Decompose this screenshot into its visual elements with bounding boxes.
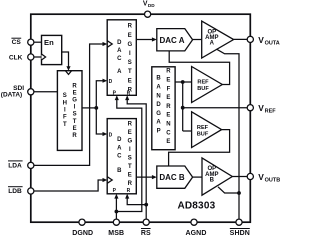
svg-text:R: R	[72, 83, 77, 89]
junction node SHDN branch	[237, 191, 241, 195]
wire DAC A to op amp A	[193, 39, 202, 41]
label REF BUF B	[197, 125, 209, 137]
pin LDB	[28, 188, 34, 194]
svg-text:E: E	[128, 33, 132, 39]
svg-text:C: C	[166, 130, 171, 136]
wire CS to En	[31, 41, 42, 43]
pin AGND	[191, 219, 197, 225]
arrow LDA clock	[103, 42, 108, 46]
ref buf A	[192, 67, 223, 103]
svg-text:DGND: DGND	[72, 230, 93, 237]
wire VREF line	[183, 107, 251, 109]
label DAC B vertical	[117, 137, 122, 174]
label REGISTER vertical (DAC A)	[127, 24, 132, 94]
pin LDA	[28, 162, 34, 168]
op-amp B	[202, 158, 232, 195]
svg-text:C: C	[117, 56, 122, 62]
wire op amp A output to VOUTA	[234, 38, 251, 40]
svg-text:AD8303: AD8303	[177, 201, 215, 212]
bandgap reference box	[152, 67, 175, 150]
svg-text:T: T	[63, 122, 67, 128]
svg-text:E: E	[128, 78, 132, 84]
svg-text:A: A	[117, 48, 122, 54]
svg-text:R: R	[128, 24, 133, 30]
pin RS	[143, 219, 149, 225]
svg-text:MSB: MSB	[108, 230, 124, 237]
wire DAC B to op amp B	[193, 176, 202, 178]
arrow DAC A reg to DAC A	[152, 37, 157, 41]
wire DAC B register to DAC B	[136, 176, 152, 178]
svg-text:N: N	[166, 122, 170, 128]
pin VDD	[145, 11, 151, 17]
label RS	[141, 229, 151, 238]
svg-text:RS: RS	[141, 230, 151, 237]
wire ref buf A output to DAC A ref	[169, 51, 229, 85]
arrow RS to DAC B reg R	[125, 194, 129, 199]
label D P R (DAC A reg)	[109, 79, 131, 96]
wire RS up to registers	[127, 100, 146, 223]
ref buf B	[192, 112, 222, 148]
label REF BUF A	[197, 80, 209, 92]
svg-text:D: D	[156, 102, 161, 108]
label REFERENCE vertical	[166, 69, 171, 145]
svg-text:R: R	[166, 69, 171, 75]
DAC B converter	[157, 166, 193, 188]
label CS	[11, 38, 21, 46]
svg-text:DD: DD	[148, 3, 155, 8]
wire bandgap to ref buf A	[175, 81, 192, 83]
label VDD	[143, 0, 155, 8]
arrow shift to DAC A reg D	[103, 79, 108, 83]
svg-text:D: D	[109, 79, 113, 85]
arrow MSB to DAC A reg P	[115, 95, 119, 100]
label VREF	[258, 103, 276, 115]
wire CLK to En	[31, 56, 42, 58]
pin CLK	[28, 54, 34, 60]
svg-text:OUTA: OUTA	[265, 40, 280, 46]
pin SDI	[28, 89, 34, 95]
pin DGND	[79, 219, 85, 225]
wire SDI to shift register	[31, 91, 58, 93]
svg-text:A: A	[156, 120, 161, 126]
svg-text:REF: REF	[265, 109, 277, 115]
svg-text:SHDN: SHDN	[230, 230, 250, 237]
svg-text:REF: REF	[197, 125, 209, 131]
label OP AMP A	[205, 29, 218, 46]
junction node VREF tap	[181, 106, 185, 110]
wire LDB to DAC B register clock	[31, 180, 104, 191]
svg-text:D: D	[117, 137, 122, 143]
svg-text:BUF: BUF	[197, 131, 209, 137]
svg-text:H: H	[63, 100, 67, 106]
svg-text:D: D	[109, 133, 113, 139]
arrow En clock down	[66, 66, 70, 71]
svg-text:S: S	[128, 156, 132, 162]
svg-text:T: T	[128, 164, 132, 170]
svg-text:En: En	[44, 38, 54, 47]
label SHIFT vertical	[63, 93, 67, 128]
wire shift register output node	[82, 107, 96, 109]
svg-text:CS: CS	[12, 39, 22, 46]
wire ref buf B output to DAC B ref	[169, 130, 230, 166]
arrow RS to DAC A reg R	[125, 95, 129, 100]
svg-text:T: T	[128, 69, 132, 75]
svg-text:E: E	[166, 78, 170, 84]
svg-text:N: N	[156, 93, 160, 99]
svg-text:F: F	[63, 115, 67, 121]
svg-text:V: V	[258, 35, 264, 45]
pin VOUTB	[247, 173, 253, 179]
svg-text:(DATA): (DATA)	[1, 92, 22, 99]
junction node RS branch	[144, 203, 148, 207]
label BANDGAP vertical	[156, 76, 161, 135]
svg-text:E: E	[166, 113, 170, 119]
svg-text:E: E	[128, 173, 132, 179]
svg-text:B: B	[156, 76, 161, 82]
wire to DAC A register D	[96, 81, 103, 108]
DAC B register box	[107, 119, 136, 194]
svg-text:A: A	[117, 69, 122, 75]
svg-text:AGND: AGND	[185, 230, 206, 237]
svg-text:R: R	[127, 90, 131, 96]
svg-text:B: B	[117, 168, 122, 174]
svg-text:S: S	[73, 112, 77, 118]
svg-text:D: D	[117, 40, 122, 46]
svg-text:DAC B: DAC B	[159, 173, 185, 182]
svg-text:T: T	[73, 119, 77, 125]
op-amp A	[202, 21, 234, 58]
arrowheads	[66, 37, 156, 198]
pin CS	[28, 39, 34, 45]
svg-text:B: B	[210, 178, 215, 184]
svg-text:V: V	[258, 103, 264, 113]
junction node shift out	[94, 106, 98, 110]
wire to ref buf B input	[183, 130, 192, 132]
wire op amp B output to VOUTB	[232, 176, 250, 178]
wire SHDN net	[216, 49, 239, 222]
DAC A converter	[157, 29, 193, 51]
svg-text:R: R	[128, 122, 133, 128]
wire to DAC B register D	[96, 108, 103, 134]
svg-text:G: G	[127, 139, 132, 145]
label D P R (DAC B reg)	[109, 133, 131, 194]
shift register box	[57, 71, 82, 151]
label LDB	[8, 187, 23, 196]
label VOUTA	[258, 35, 280, 47]
label DAC A vertical	[117, 40, 122, 75]
junction node bandgap out	[181, 80, 185, 84]
label REGISTER vertical (DAC B)	[127, 122, 132, 188]
svg-text:E: E	[128, 130, 132, 136]
svg-text:A: A	[156, 85, 161, 91]
label OP AMP B	[205, 166, 218, 183]
label VOUTB	[258, 172, 280, 184]
svg-text:G: G	[127, 42, 132, 48]
wire LDA to DAC A register clock	[31, 44, 104, 165]
arrow DAC B reg to DAC B	[152, 175, 157, 179]
svg-text:S: S	[63, 93, 67, 99]
svg-text:E: E	[166, 139, 170, 145]
svg-text:A: A	[210, 41, 215, 47]
svg-text:LDA: LDA	[8, 162, 22, 169]
wire reference bus vertical	[182, 82, 184, 131]
svg-text:R: R	[127, 188, 131, 194]
svg-text:F: F	[167, 86, 171, 92]
pin MSB	[113, 219, 119, 225]
svg-text:OUTB: OUTB	[265, 178, 280, 184]
svg-text:CLK: CLK	[9, 55, 23, 62]
svg-text:V: V	[258, 172, 264, 182]
svg-text:R: R	[166, 104, 171, 110]
wire DAC A register to DAC A	[136, 39, 152, 41]
wire En to shift register clock	[62, 52, 69, 67]
pin VOUTA	[247, 36, 253, 42]
svg-text:C: C	[117, 154, 122, 160]
svg-text:E: E	[73, 126, 77, 132]
label REGISTER vertical (shift)	[72, 83, 77, 139]
arrow shift to DAC B reg D	[103, 132, 108, 136]
junction node MSB branch	[115, 210, 119, 214]
label SHDN	[230, 229, 250, 238]
svg-text:S: S	[128, 60, 132, 66]
arrow LDB clock	[103, 178, 108, 182]
svg-text:REF: REF	[197, 80, 209, 86]
svg-text:R: R	[128, 181, 133, 187]
svg-text:G: G	[156, 111, 161, 117]
svg-text:P: P	[157, 129, 161, 135]
arrow MSB to DAC B reg P	[114, 194, 118, 199]
DAC A register box	[107, 20, 136, 96]
svg-text:E: E	[73, 90, 77, 96]
svg-text:BUF: BUF	[197, 86, 209, 92]
svg-text:DAC A: DAC A	[159, 36, 184, 45]
svg-text:LDB: LDB	[8, 188, 22, 195]
chip outline	[31, 14, 251, 222]
En block	[42, 35, 62, 64]
wire MSB up to registers	[115, 198, 117, 222]
pin VREF	[247, 105, 253, 111]
svg-text:E: E	[166, 95, 170, 101]
label LDA	[8, 161, 23, 170]
svg-text:R: R	[72, 133, 77, 139]
pin SHDN	[236, 219, 242, 225]
label SDI (DATA)	[1, 85, 24, 99]
svg-text:A: A	[117, 145, 122, 151]
svg-text:G: G	[72, 98, 77, 104]
